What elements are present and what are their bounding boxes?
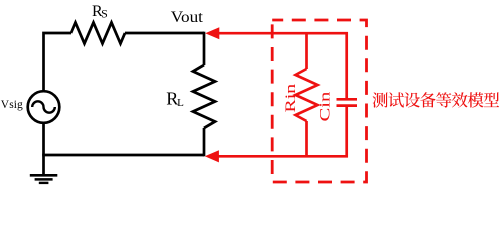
chinese char 试	[388, 92, 404, 107]
wire top rail left segment	[44, 33, 72, 92]
red bottom rail wire	[217, 107, 347, 156]
resistor RL	[193, 65, 215, 128]
wire left branch lower	[42, 123, 45, 155]
chinese char 测	[373, 92, 388, 107]
svg-text:Cin: Cin	[316, 92, 333, 122]
wire Rin branch top	[305, 33, 308, 69]
red arrow bottom	[205, 150, 219, 162]
wire RL branch bottom	[203, 128, 206, 156]
dashed box (test equipment model boundary)	[272, 20, 366, 182]
svg-text:Rin: Rin	[282, 84, 299, 113]
chinese char 备	[420, 92, 436, 107]
capacitor Cin plates	[337, 98, 358, 101]
wire RL branch top	[203, 32, 206, 65]
source Vsig	[28, 91, 60, 123]
svg-text:RL: RL	[166, 89, 184, 109]
chinese char 设	[404, 92, 420, 107]
resistor Rin	[296, 69, 318, 121]
chinese char 等	[436, 92, 451, 107]
svg-text:Vsig: Vsig	[1, 99, 23, 111]
red top rail wire	[217, 33, 347, 98]
wire Rin branch bottom	[305, 121, 308, 156]
resistor RS	[71, 23, 125, 44]
svg-text:Vout: Vout	[171, 8, 204, 26]
chinese char 效	[452, 92, 468, 107]
red arrow top	[205, 27, 219, 39]
chinese char 型	[484, 92, 499, 107]
ground	[42, 155, 45, 174]
wire top rail right segment	[125, 32, 204, 35]
svg-text:RS: RS	[92, 3, 108, 20]
chinese caption 测试设备等效模型	[373, 92, 500, 107]
wire bottom rail	[42, 154, 204, 157]
chinese char 模	[468, 92, 484, 107]
